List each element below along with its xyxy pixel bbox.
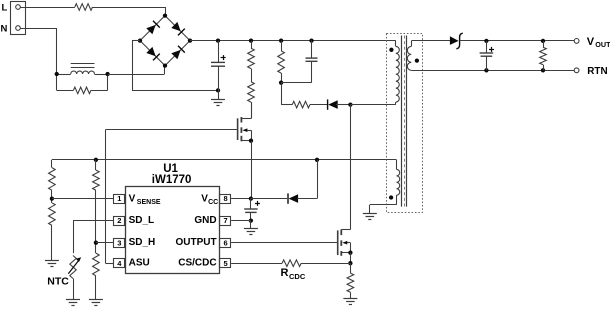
svg-text:OUT: OUT bbox=[595, 40, 610, 49]
svg-text:1: 1 bbox=[117, 194, 121, 203]
svg-text:NTC: NTC bbox=[47, 275, 69, 287]
svg-text:V: V bbox=[587, 36, 595, 48]
svg-text:OUTPUT: OUTPUT bbox=[175, 237, 216, 248]
svg-text:CS/CDC: CS/CDC bbox=[178, 258, 216, 269]
svg-text:ASU: ASU bbox=[129, 258, 150, 269]
svg-text:CC: CC bbox=[208, 199, 218, 206]
svg-text:R: R bbox=[281, 267, 289, 279]
svg-text:V: V bbox=[129, 194, 136, 205]
svg-text:L: L bbox=[2, 3, 8, 14]
svg-text:U1: U1 bbox=[163, 163, 178, 175]
svg-text:RTN: RTN bbox=[587, 66, 607, 77]
svg-text:iW1770: iW1770 bbox=[152, 174, 192, 186]
svg-text:SENSE: SENSE bbox=[137, 199, 161, 206]
svg-text:CDC: CDC bbox=[289, 272, 306, 281]
svg-text:N: N bbox=[1, 24, 8, 35]
svg-text:5: 5 bbox=[224, 259, 228, 268]
svg-text:7: 7 bbox=[224, 216, 228, 225]
svg-text:SD_H: SD_H bbox=[129, 237, 156, 248]
svg-text:SD_L: SD_L bbox=[129, 215, 155, 226]
svg-text:8: 8 bbox=[224, 194, 228, 203]
svg-text:GND: GND bbox=[194, 215, 216, 226]
svg-text:2: 2 bbox=[117, 216, 121, 225]
svg-text:6: 6 bbox=[224, 238, 228, 247]
svg-text:3: 3 bbox=[117, 238, 121, 247]
